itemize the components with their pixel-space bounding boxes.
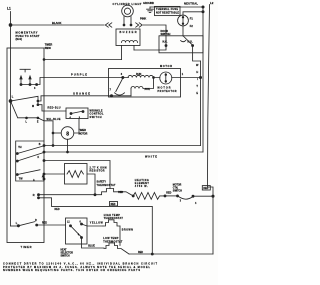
low temp thermostat [103, 237, 129, 254]
svg-text:H: H [196, 71, 198, 74]
svg-text:TH: TH [18, 146, 21, 149]
timer blade 2 to L E contacts [11, 101, 45, 123]
wrinkle control switch [66, 108, 104, 119]
wire timer R to safety thermostat [39, 194, 96, 196]
wire PURPLE timer to motor [44, 73, 123, 78]
wire door switch NO down to white bus [193, 46, 201, 61]
svg-text:BROWN: BROWN [122, 228, 133, 231]
svg-text:RED: RED [42, 221, 47, 224]
svg-text:YELLOW: YELLOW [90, 222, 104, 225]
svg-text:M: M [32, 105, 34, 108]
junction timer top contacts [20, 78, 44, 90]
wire ORANGE timer to motor [44, 91, 131, 96]
timer cam symbol [20, 69, 30, 72]
svg-text:BLACK: BLACK [52, 21, 61, 25]
node L1 [7, 7, 11, 11]
timer box [7, 44, 53, 243]
svg-text:SWITCH: SWITCH [61, 255, 70, 257]
svg-text:MOTOR: MOTOR [79, 132, 88, 135]
svg-text:MOTOR: MOTOR [173, 184, 182, 186]
motor centrifugal switch blade [110, 78, 125, 97]
wire L2 vertical [208, 5, 214, 255]
svg-text:4750 W.: 4750 W. [135, 185, 148, 188]
heat selector switch box [66, 218, 88, 244]
wire white motor vertical [200, 61, 202, 146]
wire white B timer to neutral vertical [44, 152, 203, 158]
heating element 4750 W [133, 179, 166, 200]
cylinder light CYLINDER LIGHT [113, 2, 142, 26]
svg-text:ORANGE: ORANGE [73, 91, 90, 95]
junction L2 heater [212, 195, 214, 197]
wire RED bottom to L2 [129, 251, 213, 255]
svg-text:CTN.: CTN. [173, 187, 179, 189]
svg-text:L2: L2 [210, 1, 214, 5]
wire neutral vertical [202, 7, 204, 152]
timer TH TW sub-box [16, 141, 45, 182]
thermal fuse F1 F2 [178, 15, 194, 28]
svg-text:BUZZER: BUZZER [120, 31, 137, 34]
svg-text:8: 8 [66, 131, 69, 137]
wire timer motor bottom lead [67, 139, 69, 153]
thermal fuse label box [155, 6, 181, 15]
svg-text:(M-S): (M-S) [16, 37, 23, 41]
wire resistor right lead [87, 174, 96, 196]
timer contact arrows [21, 78, 30, 85]
label momentary push to start [16, 31, 40, 42]
svg-text:PINK: PINK [140, 16, 146, 20]
wire timer to safety thermostat top [44, 161, 110, 189]
high temp thermostat [103, 214, 123, 226]
connector chevrons left of cylinder light [105, 23, 112, 27]
svg-text:RED: RED [111, 204, 116, 206]
motor centrifugal switch contact [165, 184, 213, 205]
wire YELLOW [82, 222, 104, 226]
wire resistor left lead [44, 173, 65, 175]
wire timer to heat selector RED [37, 221, 66, 225]
node 3 motor [121, 73, 124, 78]
svg-text:MOTOR: MOTOR [160, 65, 172, 68]
svg-text:NUMBERS WHEN REQUESTING PARTS.: NUMBERS WHEN REQUESTING PARTS. THIS DRYE… [3, 269, 140, 272]
wire RED-BLU [44, 107, 66, 111]
svg-text:RESISTOR: RESISTOR [90, 170, 105, 173]
svg-text:5M30: 5M30 [45, 47, 52, 50]
svg-text:RED: RED [118, 192, 123, 194]
svg-text:SELECTOR: SELECTOR [61, 252, 74, 254]
run winding RUN [123, 73, 160, 78]
svg-text:WHITE: WHITE [145, 154, 157, 158]
wire buzzer to NC [134, 46, 166, 51]
svg-text:RED: RED [166, 192, 171, 195]
motor protector [158, 72, 177, 93]
wire BROWN [120, 226, 133, 246]
svg-text:NOT RESETTABLE: NOT RESETTABLE [156, 11, 179, 14]
svg-text:TIMER: TIMER [21, 245, 32, 249]
label RED right of element [166, 192, 171, 195]
svg-text:NEUTRAL: NEUTRAL [184, 1, 198, 5]
wire BLUE [82, 238, 105, 249]
wire buzzer to timer [43, 59, 121, 61]
timer motor [61, 127, 87, 140]
junction neutral lower [202, 11, 204, 13]
aux winding AUX [131, 77, 154, 96]
svg-text:L1: L1 [7, 7, 11, 11]
door switch box [159, 30, 203, 53]
svg-text:RED: RED [55, 208, 60, 211]
label TIMER bottom [21, 245, 32, 249]
wire PINK [140, 16, 166, 45]
wire BLACK [11, 21, 105, 25]
resistor 2.77 K OHM [65, 164, 107, 185]
svg-text:RED: RED [138, 251, 143, 254]
label HEAT SELECTOR SWITCH [61, 248, 74, 257]
svg-text:AUX.: AUX. [145, 88, 151, 91]
wire L1 vertical bus [10, 12, 12, 227]
label WHITE vertical [196, 64, 199, 95]
wire white A timer to motor vertical [44, 145, 201, 147]
label RED tag above safety tstat [118, 192, 123, 194]
safety thermostat [95, 181, 134, 197]
note text bottom [3, 263, 157, 272]
connector chevrons right of cylinder light [136, 23, 143, 27]
ground symbol and GROUND label [143, 2, 154, 12]
junction neutral upper [202, 6, 204, 8]
junction L1/black [9, 24, 12, 27]
wire thermal fuse to neutral [183, 12, 203, 15]
svg-text:BLUE: BLUE [88, 245, 95, 248]
svg-text:GROUND: GROUND [143, 2, 154, 5]
node L hub [9, 96, 14, 103]
svg-text:N.C.: N.C. [163, 41, 168, 44]
timer contact L R bottom [11, 219, 38, 227]
svg-text:R: R [33, 194, 35, 197]
node L2 [210, 1, 214, 5]
wire WH-BLUE [44, 118, 61, 145]
svg-text:R: R [35, 219, 37, 222]
svg-text:SWITCH: SWITCH [173, 190, 182, 192]
svg-text:SWITCH: SWITCH [90, 116, 102, 119]
label RED boxed far right [202, 186, 210, 191]
wire timer motor right lead [74, 119, 79, 134]
wire timer motor left lead [52, 132, 61, 134]
node 1 motor [172, 73, 202, 79]
wire fuse to door switch [182, 26, 184, 36]
svg-text:PROTECTOR: PROTECTOR [158, 90, 177, 93]
timer blade 1 to M contacts [11, 96, 45, 111]
node R timer [33, 194, 40, 199]
buzzer [116, 29, 140, 60]
wire timer R2 red to L2 bottom [39, 198, 153, 254]
svg-text:HEAT: HEAT [61, 248, 68, 251]
motor box [109, 65, 181, 97]
svg-text:RED: RED [203, 188, 208, 190]
node NEUTRAL [184, 1, 198, 5]
svg-text:THERMOSTAT: THERMOSTAT [97, 184, 117, 187]
wire ground to neutral [150, 6, 203, 8]
svg-text:PURPLE: PURPLE [71, 73, 87, 77]
label RED boxed tag below safety tstat [110, 202, 118, 207]
svg-text:RED-BLU: RED-BLU [48, 107, 61, 110]
